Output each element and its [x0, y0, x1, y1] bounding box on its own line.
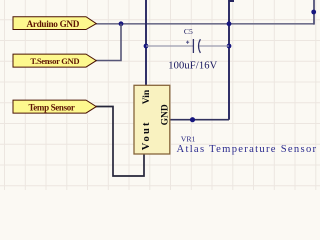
wire Vin vertical from sheet top to regulator — [145, 0, 147, 86]
svg-text:VR1: VR1 — [181, 135, 196, 144]
port Temp Sensor — [13, 100, 96, 113]
port Arduino GND — [13, 17, 96, 30]
svg-text:T.Sensor GND: T.Sensor GND — [30, 56, 79, 66]
node GND net / top run junction — [227, 21, 232, 26]
svg-text:C5: C5 — [184, 27, 193, 36]
capacitor C5 — [146, 39, 229, 53]
wire GND net vertical — [229, 1, 234, 120]
svg-text:100uF/16V: 100uF/16V — [168, 61, 217, 72]
svg-text:Arduino GND: Arduino GND — [26, 19, 79, 29]
wire Arduino GND net horizontal run — [96, 23, 314, 25]
wire GND pin run from regulator — [170, 119, 229, 121]
node GND pin junction — [190, 117, 195, 122]
svg-text:GND: GND — [160, 104, 170, 125]
wire T.Sensor GND run and riser — [96, 24, 121, 61]
svg-text:Vout: Vout — [141, 120, 152, 150]
svg-text:Temp Sensor: Temp Sensor — [28, 103, 74, 113]
regulator U/VR1 body — [134, 85, 170, 154]
svg-text:Vin: Vin — [142, 89, 152, 104]
wire top-right vertical to sheet edge — [313, 0, 315, 25]
wire Temp Sensor to Vout loop — [96, 107, 144, 177]
node Arduino GND / T.Sensor GND junction — [119, 21, 124, 26]
node top-right junction — [311, 10, 316, 15]
port T.Sensor GND — [13, 54, 96, 67]
svg-text:Atlas Temperature Sensor: Atlas Temperature Sensor — [177, 144, 318, 155]
node capacitor left junction — [144, 44, 149, 49]
node capacitor right junction — [227, 44, 232, 49]
